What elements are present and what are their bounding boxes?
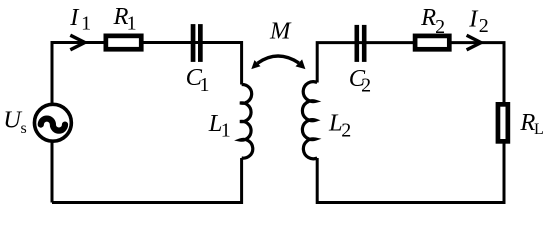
- mutual coupling M arc: [258, 56, 299, 63]
- wire left loop top and sides: [52, 43, 242, 203]
- svg-text:2: 2: [435, 16, 445, 38]
- svg-text:I: I: [69, 4, 80, 31]
- wire right loop: [317, 43, 504, 203]
- svg-text:R: R: [420, 4, 436, 31]
- capacitor C1 plate right: [198, 24, 203, 62]
- svg-text:1: 1: [81, 13, 91, 35]
- svg-text:2: 2: [341, 119, 351, 141]
- resistor RL: [498, 104, 508, 141]
- svg-text:L: L: [534, 121, 544, 138]
- capacitor C2 plate right: [362, 25, 367, 62]
- capacitor C2 plate left: [355, 25, 360, 62]
- inductor L2: [302, 82, 317, 159]
- M arrowhead right: [296, 59, 306, 69]
- svg-text:2: 2: [479, 15, 489, 37]
- inductor L1: [240, 84, 253, 158]
- capacitor C1 plate left: [191, 24, 196, 62]
- svg-text:2: 2: [361, 75, 371, 97]
- M arrowhead left: [251, 60, 260, 69]
- svg-text:I: I: [468, 5, 479, 32]
- svg-text:1: 1: [200, 74, 210, 96]
- source U_s circle: [34, 104, 71, 141]
- arrow I1: [70, 35, 85, 50]
- svg-text:1: 1: [221, 120, 231, 142]
- svg-text:1: 1: [127, 13, 137, 35]
- svg-text:s: s: [21, 120, 27, 137]
- source sine wave: [41, 119, 65, 131]
- svg-text:M: M: [269, 17, 292, 44]
- svg-text:R: R: [519, 109, 535, 136]
- resistor R2: [415, 36, 449, 49]
- resistor R1: [106, 36, 141, 49]
- arrow I2: [467, 35, 481, 50]
